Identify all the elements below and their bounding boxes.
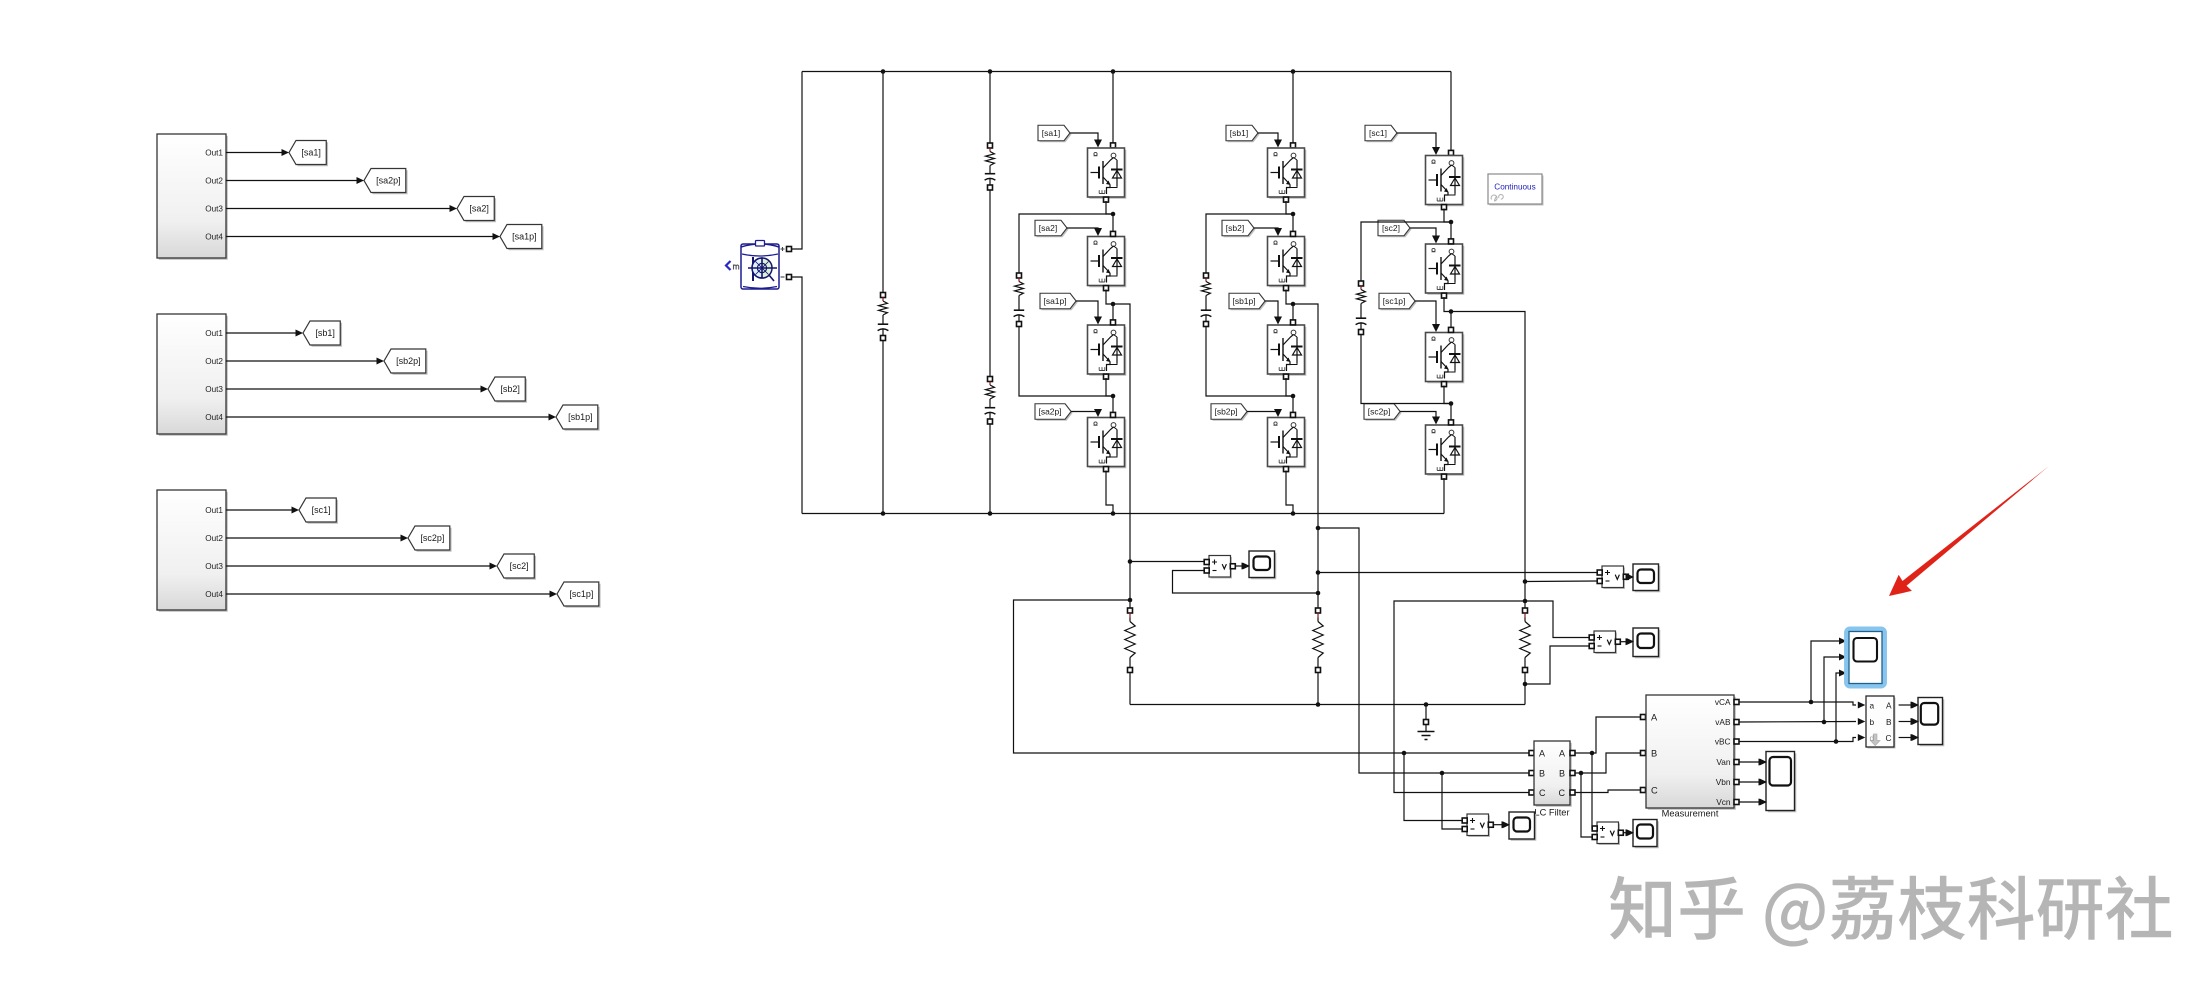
svg-text:[sa2p]: [sa2p] — [376, 176, 401, 186]
wire LC A out to VLCout + — [1591, 753, 1593, 829]
svg-text:[sc2p]: [sc2p] — [1368, 407, 1391, 417]
svg-text:Out2: Out2 — [205, 177, 223, 186]
wire LC A to VLCin + — [1404, 753, 1462, 821]
svg-text:Out4: Out4 — [205, 413, 223, 422]
svg-text:[sb2p]: [sb2p] — [396, 356, 421, 366]
svg-text:Out1: Out1 — [205, 149, 223, 158]
IGBT/Diode Sc1 — [1426, 156, 1465, 210]
wire top bus to phase C IGBT 1 collector — [1449, 72, 1454, 156]
wire R B bottom to neutral — [1316, 672, 1321, 707]
wire Vbn to scope — [1739, 779, 1766, 786]
wire LC B out to VLCout - — [1581, 773, 1592, 837]
IGBT/Diode Sb1p — [1268, 320, 1307, 379]
wire Out to Goto [sc2p] — [226, 535, 408, 542]
wire LC filter C out to Measurement C — [1575, 788, 1646, 793]
ground G — [1418, 702, 1435, 739]
gate wire [sb1] to Sb1 — [1258, 133, 1282, 148]
From tag [sb1] — [1226, 125, 1260, 142]
svg-text:[sb1]: [sb1] — [1230, 128, 1248, 138]
wire Sc2 emitter to Sc1p collector — [1444, 297, 1453, 328]
selector block a b d to A B C — [1866, 696, 1896, 749]
wire Sa1p emitter to Sa2p collector — [1106, 378, 1115, 413]
subsystem LC Filter — [1534, 741, 1575, 818]
wire vBC to selector d — [1739, 734, 1866, 744]
voltage measurement V LCout ab — [1592, 822, 1623, 845]
svg-text:Out2: Out2 — [205, 357, 223, 366]
wire Out to Goto [sc1p] — [226, 591, 557, 598]
wire phase B to LC filter B — [1318, 528, 1534, 776]
From tag [sc2p] — [1364, 404, 1402, 421]
wire battery - to bottom bus — [791, 277, 802, 514]
Goto tag [sb1p] — [556, 405, 600, 431]
wire vCA to selector a — [1739, 700, 1866, 709]
wire Sb2p emitter to bottom bus — [1286, 471, 1295, 516]
wire vAB tap to highlighted scope — [1824, 654, 1847, 723]
wire VLCout v to scope — [1623, 829, 1633, 836]
svg-text:[sb2]: [sb2] — [1226, 223, 1244, 233]
scope Vbc — [1627, 564, 1661, 592]
svg-text:Out1: Out1 — [205, 506, 223, 515]
wire LC filter A out to Measurement A — [1575, 715, 1646, 756]
svg-text:[sb2p]: [sb2p] — [1214, 407, 1237, 417]
svg-text:a: a — [1870, 701, 1875, 711]
From tag [sa2p] — [1035, 404, 1073, 421]
wire Out to Goto [sa2p] — [226, 177, 364, 184]
svg-text:C: C — [1651, 786, 1658, 796]
From tag [sc1] — [1365, 125, 1399, 142]
wire Sc1 emitter to Sc2 collector — [1444, 209, 1453, 240]
Goto tag [sa2] — [457, 197, 496, 223]
gate wire [sc1p] to Sc1p — [1415, 301, 1440, 332]
Goto tag [sc2] — [497, 554, 536, 580]
svg-text:[sb1p]: [sb1p] — [568, 412, 593, 422]
scope phase ABC after selector — [1912, 698, 1945, 747]
wire Out to Goto [sb1] — [226, 330, 303, 337]
svg-text:B: B — [1886, 717, 1892, 727]
battery measurement label m — [726, 261, 739, 270]
svg-text:[sb1]: [sb1] — [315, 328, 335, 338]
wire R C bottom to Vc - — [1525, 646, 1589, 684]
wire phase C to Vc + — [1525, 601, 1589, 638]
flying-capacitor RC branch phase B — [1201, 214, 1293, 396]
gate wire [sb2] to Sb2 — [1254, 228, 1282, 236]
wire selector B to scope — [1899, 718, 1918, 725]
gate wire [sa2] to Sa2 — [1067, 228, 1102, 236]
wire Van to scope — [1739, 759, 1766, 766]
svg-text:[sc2]: [sc2] — [510, 561, 529, 571]
svg-text:[sa1p]: [sa1p] — [1043, 296, 1066, 306]
svg-text:Out4: Out4 — [205, 590, 223, 599]
wire Sa2p emitter to bottom bus — [1106, 471, 1115, 516]
svg-text:Vcn: Vcn — [1716, 797, 1731, 807]
scope Vc — [1627, 628, 1661, 658]
svg-text:Van: Van — [1716, 757, 1731, 767]
scope Vab — [1243, 551, 1277, 579]
wire Vab - to phase B — [1173, 571, 1319, 594]
svg-text:Out3: Out3 — [205, 562, 223, 571]
scope VLCout — [1627, 820, 1659, 849]
wire Out to Goto [sa1] — [226, 149, 289, 156]
DC-link divider rail with two RC branches — [985, 69, 996, 516]
Goto tag [sb2p] — [384, 349, 428, 375]
load resistor R phase C — [1520, 579, 1530, 672]
IGBT/Diode Sc1p — [1426, 327, 1465, 386]
wire Out to Goto [sb2p] — [226, 358, 384, 365]
From tag [sa2] — [1035, 220, 1069, 237]
Goto tag [sb1] — [303, 321, 342, 347]
svg-text:A: A — [1651, 713, 1658, 723]
Goto tag [sa2p] — [364, 169, 408, 195]
svg-text:[sa1]: [sa1] — [301, 148, 321, 158]
wire selector C to scope — [1899, 734, 1918, 741]
From tag [sb1p] — [1229, 293, 1267, 310]
gate wire [sa2p] to Sa2p — [1071, 409, 1102, 417]
svg-text:A: A — [1886, 701, 1892, 711]
load resistor R phase B — [1313, 526, 1323, 673]
gate wire [sc1] to Sc1 — [1397, 133, 1440, 155]
svg-text:[sc2]: [sc2] — [1382, 223, 1400, 233]
From tag [sb2] — [1222, 220, 1256, 237]
wire R A bottom to neutral — [1129, 672, 1131, 704]
scope VLCin — [1503, 812, 1537, 841]
IGBT/Diode Sa2 — [1088, 231, 1127, 290]
svg-text:LC Filter: LC Filter — [1534, 808, 1569, 818]
wire Out to Goto [sc2] — [226, 563, 497, 570]
wire Sb2 emitter to Sb1p collector — [1286, 290, 1295, 321]
scope Van Vbn Vcn — [1760, 752, 1797, 813]
svg-text:C: C — [1559, 788, 1566, 798]
subsystem Measurement — [1646, 695, 1739, 819]
red annotation arrow — [1889, 466, 2049, 596]
wire Out to Goto [sb2] — [226, 386, 488, 393]
svg-text:C: C — [1539, 788, 1546, 798]
Goto tag [sb2] — [488, 377, 527, 403]
IGBT/Diode Sb2p — [1268, 412, 1307, 471]
svg-text:[sa1]: [sa1] — [1042, 128, 1060, 138]
subsystem pulse-generator phase B — [157, 314, 228, 436]
IGBT/Diode Sa1 — [1088, 148, 1127, 202]
wire Sc2p emitter to bottom bus — [1443, 478, 1445, 514]
wire Sa1 emitter to Sa2 collector — [1106, 201, 1115, 232]
wire Sc1p emitter to Sc2p collector — [1444, 386, 1453, 421]
svg-text:[sa2]: [sa2] — [1039, 223, 1057, 233]
DC rail with RC snubber R-C series — [878, 69, 889, 516]
wire phase A to Vab + — [1130, 561, 1204, 563]
subsystem pulse-generator phase C — [157, 490, 228, 612]
From tag [sb2p] — [1211, 404, 1249, 421]
svg-text:[sc2p]: [sc2p] — [420, 533, 444, 543]
svg-text:vBC: vBC — [1715, 737, 1731, 747]
wire Vc v to scope — [1620, 638, 1633, 645]
svg-text:A: A — [1559, 749, 1565, 759]
svg-text:Measurement: Measurement — [1662, 809, 1719, 819]
wire selector A to scope — [1899, 702, 1918, 709]
voltage measurement Vbc — [1597, 566, 1628, 589]
svg-text:b: b — [1870, 717, 1875, 727]
IGBT/Diode Sb1 — [1268, 148, 1307, 202]
gate wire [sa1p] to Sa1p — [1076, 301, 1102, 325]
From tag [sa1p] — [1040, 293, 1078, 310]
svg-text:[sc1p]: [sc1p] — [569, 589, 593, 599]
From tag [sc2] — [1378, 220, 1412, 237]
powergui block Continuous — [1488, 174, 1544, 206]
neutral wire — [1130, 704, 1525, 706]
svg-text:A: A — [1539, 749, 1545, 759]
svg-text:[sa2p]: [sa2p] — [1038, 407, 1061, 417]
svg-text:B: B — [1539, 769, 1545, 779]
Goto tag [sc2p] — [408, 526, 452, 552]
IGBT/Diode Sa1p — [1088, 320, 1127, 379]
watermark zhihu — [1610, 876, 2171, 947]
gate wire [sb2p] to Sb2p — [1247, 409, 1282, 417]
Goto tag [sa1] — [289, 141, 328, 167]
voltage measurement Vc load — [1589, 631, 1620, 654]
svg-text:Out3: Out3 — [205, 385, 223, 394]
wire Vab v to scope — [1235, 563, 1249, 570]
From tag [sa1] — [1038, 125, 1072, 142]
wire LC filter B out to Measurement B — [1575, 751, 1646, 776]
svg-text:[sc1]: [sc1] — [312, 505, 331, 515]
gate wire [sc2p] to Sc2p — [1400, 412, 1440, 425]
wire Sa2 emitter to Sa1p collector — [1106, 290, 1115, 321]
svg-text:[sc1]: [sc1] — [1369, 128, 1387, 138]
svg-text:Out1: Out1 — [205, 329, 223, 338]
phase A output wire — [1113, 304, 1130, 608]
IGBT/Diode Sc2p — [1426, 420, 1465, 479]
gate wire [sc2] to Sc2 — [1410, 228, 1440, 244]
svg-text:C: C — [1886, 733, 1892, 743]
wire top bus to phase B IGBT 1 collector — [1291, 69, 1296, 148]
wire vAB to selector b — [1739, 718, 1866, 725]
Goto tag [sc1] — [299, 498, 338, 524]
svg-text:[sb1p]: [sb1p] — [1232, 296, 1255, 306]
svg-text:Vbn: Vbn — [1716, 777, 1731, 787]
svg-text:[sa2]: [sa2] — [469, 204, 489, 214]
wire vCA tap to highlighted scope — [1811, 638, 1847, 703]
flying-capacitor RC branch phase A — [1014, 214, 1113, 396]
wire top bus to phase A IGBT 1 collector — [1111, 69, 1116, 148]
wire VLCin v to scope — [1493, 821, 1509, 828]
svg-text:B: B — [1559, 769, 1565, 779]
IGBT/Diode Sb2 — [1268, 231, 1307, 290]
wire battery + to top bus — [791, 72, 802, 250]
gate wire [sb1p] to Sb1p — [1265, 301, 1282, 325]
svg-text:Out2: Out2 — [205, 534, 223, 543]
wire Out to Goto [sc1] — [226, 507, 299, 514]
svg-text:Out4: Out4 — [205, 233, 223, 242]
svg-text:[sa1p]: [sa1p] — [512, 232, 537, 242]
highlighted scope (selected, blue) — [1846, 629, 1884, 686]
Goto tag [sa1p] — [500, 225, 544, 251]
wire phase A to LC filter A — [1014, 600, 1535, 756]
wire phase B to Vbc + — [1318, 572, 1597, 574]
svg-text:vCA: vCA — [1715, 697, 1731, 707]
battery DC source B1 — [741, 241, 792, 290]
phase B output wire — [1293, 304, 1318, 608]
wire Out to Goto [sa1p] — [226, 233, 500, 240]
svg-text:[sb2]: [sb2] — [500, 384, 520, 394]
wire R C bottom to neutral — [1523, 672, 1528, 704]
subsystem pulse-generator phase A — [157, 134, 228, 260]
svg-text:Continuous: Continuous — [1494, 183, 1535, 192]
svg-text:vAB: vAB — [1715, 717, 1731, 727]
wire Out to Goto [sa2] — [226, 205, 457, 212]
wire Sb1 emitter to Sb2 collector — [1286, 201, 1295, 232]
IGBT/Diode Sa2p — [1088, 412, 1127, 471]
wire LC B to VLCin - — [1442, 773, 1462, 829]
wire phase C to Vbc - — [1525, 580, 1597, 583]
top DC bus — [802, 71, 1451, 73]
wire vBC tap to highlighted scope — [1836, 670, 1847, 742]
svg-text:Out3: Out3 — [205, 205, 223, 214]
svg-text:[sc1p]: [sc1p] — [1383, 296, 1406, 306]
gate wire [sa1] to Sa1 — [1070, 133, 1102, 148]
From tag [sc1p] — [1379, 293, 1417, 310]
wire Vcn to scope — [1739, 799, 1766, 806]
bottom DC bus — [802, 513, 1444, 515]
svg-text:d: d — [1870, 733, 1875, 743]
voltage measurement Vab — [1204, 556, 1235, 579]
Goto tag [sc1p] — [557, 582, 601, 608]
svg-text:B: B — [1651, 749, 1657, 759]
flying-capacitor RC branch phase C — [1356, 222, 1451, 404]
IGBT/Diode Sc2 — [1426, 239, 1465, 298]
wire Vbc v to scope — [1626, 573, 1634, 580]
wire Sb1p emitter to Sb2p collector — [1286, 378, 1295, 413]
wire Out to Goto [sb1p] — [226, 414, 556, 421]
voltage measurement V LCin ab — [1462, 814, 1493, 837]
phase C output wire — [1451, 312, 1525, 609]
wire phase C to LC filter C — [1394, 601, 1534, 795]
load resistor R phase A — [1125, 559, 1135, 672]
